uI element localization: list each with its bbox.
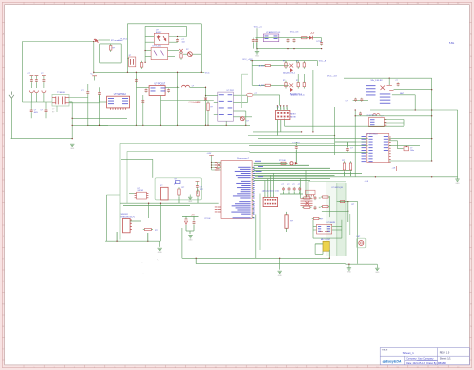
svg-text:100n: 100n (410, 150, 414, 152)
svg-text:G: G (3, 169, 5, 171)
svg-text:C?: C? (41, 110, 43, 112)
svg-text:alphanumeric·LCD: alphanumeric·LCD (262, 189, 280, 192)
svg-text:VCC: VCC (205, 73, 210, 75)
svg-text:MIC·9767: MIC·9767 (321, 239, 331, 241)
svg-text:U? AMS1117-3.3: U? AMS1117-3.3 (266, 31, 280, 34)
svg-text:R? 10K: R? 10K (279, 160, 287, 162)
svg-text:Processor•?: Processor•? (237, 157, 250, 160)
svg-text:C?: C? (255, 93, 257, 95)
svg-text:U? VTX·MCU: U? VTX·MCU (366, 133, 378, 135)
svg-text:R?: R? (52, 112, 54, 114)
svg-text:U? SM7012: U? SM7012 (114, 94, 127, 96)
svg-text:GND: GND (70, 148, 75, 150)
svg-text:K?: K? (129, 55, 131, 57)
svg-text:U? TL431: U? TL431 (153, 45, 161, 47)
svg-text:R?: R? (283, 80, 285, 82)
svg-text:M: M (2, 304, 4, 306)
svg-text:O: O (470, 349, 472, 351)
svg-text:REV: 1.0: REV: 1.0 (440, 352, 450, 355)
svg-text:GND: GND (189, 239, 194, 241)
svg-text:5.8G: 5.8G (449, 42, 454, 45)
svg-text:↔: ↔ (141, 262, 143, 264)
svg-text:C?: C? (282, 184, 284, 186)
svg-text:A_IN1: A_IN1 (259, 64, 264, 67)
svg-text:Drawn By: DBGBF: Drawn By: DBGBF (426, 362, 446, 365)
svg-text:C?: C? (287, 184, 289, 186)
svg-text:C? 100nF/25V: C? 100nF/25V (189, 102, 201, 104)
svg-text:+5V: +5V (191, 214, 195, 216)
svg-text:VCC_+5: VCC_+5 (254, 27, 263, 29)
svg-text:VCC_+1.8: VCC_+1.8 (327, 75, 337, 77)
svg-text:U? PC817: U? PC817 (155, 83, 166, 85)
svg-text:GND: GND (255, 56, 260, 58)
svg-text:104: 104 (182, 41, 185, 43)
svg-text:C?: C? (28, 73, 30, 75)
svg-text:MISO: MISO (290, 114, 296, 116)
svg-text:MOSI: MOSI (290, 116, 296, 118)
svg-text:Amplifier·N-1: Amplifier·N-1 (283, 71, 296, 74)
svg-text:R?: R? (283, 60, 285, 62)
svg-text:Amplifier·(5.8-1): Amplifier·(5.8-1) (291, 93, 305, 96)
svg-text:U? 8002B: U? 8002B (327, 222, 336, 224)
svg-text:VCC_-8: VCC_-8 (319, 61, 327, 63)
svg-text:O: O (3, 349, 5, 351)
svg-text:GND: GND (158, 252, 163, 254)
svg-text:VRx_5.8G·RX: VRx_5.8G·RX (371, 80, 384, 82)
svg-text:D?: D? (247, 121, 249, 123)
svg-text:J: J (470, 236, 471, 238)
svg-text:VCC_3.3: VCC_3.3 (290, 32, 299, 34)
svg-text:C?: C? (292, 184, 294, 186)
svg-text:+1.8: +1.8 (365, 181, 369, 183)
svg-text:S?: S? (175, 179, 177, 181)
svg-text:G: G (470, 169, 472, 171)
svg-text:GND: GND (375, 272, 380, 274)
svg-text:+1.8: +1.8 (392, 168, 396, 170)
svg-text:Sheet: 1/1: Sheet: 1/1 (440, 358, 452, 361)
svg-text:24C02: 24C02 (138, 190, 144, 192)
svg-text:R? 10K: R? 10K (205, 218, 212, 220)
svg-text:T?·EE10: T?·EE10 (57, 92, 66, 94)
svg-text:C?: C? (41, 73, 43, 75)
svg-text:EL817: EL817 (156, 32, 161, 34)
svg-text:+3.3V: +3.3V (207, 153, 213, 155)
svg-text:C?: C? (396, 80, 398, 82)
svg-text:U? GD25Q16: U? GD25Q16 (331, 187, 342, 189)
svg-text:Sheet_1: Sheet_1 (403, 351, 415, 355)
svg-text:C?: C? (52, 109, 54, 111)
svg-text:J: J (3, 236, 4, 238)
svg-text:C?: C? (298, 184, 300, 186)
svg-text:◎EasyEDA: ◎EasyEDA (382, 359, 402, 363)
svg-text:GND: GND (456, 183, 461, 185)
svg-text:H_VCC: H_VCC (121, 39, 128, 41)
svg-text:GND: GND (188, 201, 193, 203)
svg-text:A_IN2: A_IN2 (259, 84, 264, 87)
svg-text:TITLE:: TITLE: (382, 350, 388, 352)
svg-text:GND: GND (278, 275, 283, 277)
svg-text:M: M (470, 304, 472, 306)
svg-text:Date: 2021-05-13: Date: 2021-05-13 (406, 362, 425, 365)
svg-text:GND: GND (347, 272, 352, 274)
svg-text:R?: R? (211, 107, 213, 109)
svg-text:C?: C? (346, 101, 348, 103)
svg-text:D?: D? (186, 49, 188, 51)
